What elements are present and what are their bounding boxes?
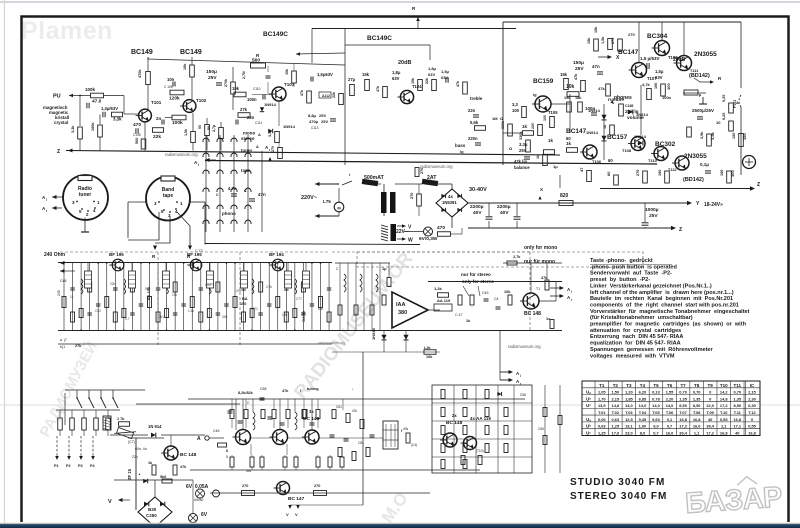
svg-text:nur für mono: nur für mono (524, 259, 555, 265)
svg-text:T7: T7 (680, 383, 686, 388)
svg-text:100: 100 (666, 83, 671, 90)
svg-text:1N914: 1N914 (588, 108, 601, 113)
svg-text:V: V (108, 499, 112, 505)
svg-text:0,70: 0,70 (679, 390, 687, 395)
svg-text:13,9: 13,9 (598, 403, 606, 408)
svg-text:balance: balance (514, 165, 530, 170)
svg-text:2,7k: 2,7k (513, 255, 521, 259)
svg-text:16,8: 16,8 (733, 417, 741, 422)
svg-text:1 7k: 1 7k (117, 417, 125, 421)
svg-text:0,55: 0,55 (720, 417, 728, 422)
svg-text:25V: 25V (208, 75, 217, 81)
svg-text:470: 470 (437, 225, 445, 231)
svg-text:tuner: tuner (79, 192, 92, 198)
svg-text:0,78: 0,78 (652, 396, 660, 401)
svg-text:1,50: 1,50 (612, 390, 620, 395)
svg-text:470k: 470k (138, 69, 142, 78)
svg-text:10n: 10n (167, 77, 175, 82)
svg-text:left channel of the amplifier: left channel of the amplifier is drawn h… (590, 290, 734, 296)
svg-text:16,0: 16,0 (666, 430, 674, 435)
svg-text:Linker Verstärkerkanal gezeic: Linker Verstärkerkanal gezeichnet (Pos.N… (590, 283, 712, 289)
svg-text:6,85: 6,85 (639, 396, 647, 401)
svg-text:Vorverstärker für magnetisch: Vorverstärker für magnetische Tonabnehme… (590, 309, 750, 315)
svg-text:1,35: 1,35 (733, 396, 741, 401)
svg-text:100: 100 (654, 83, 658, 89)
svg-text:PU: PU (53, 94, 61, 100)
svg-text:47k: 47k (180, 465, 187, 469)
svg-text:1,55: 1,55 (666, 390, 674, 395)
svg-text:tape: tape (241, 168, 251, 173)
svg-text:1,5k: 1,5k (601, 36, 605, 44)
svg-text:2n: 2n (156, 116, 162, 121)
svg-text:Entzerrung nach DIN 45 547-: Entzerrung nach DIN 45 547- RIAA (590, 334, 683, 340)
svg-text:BA: BA (242, 297, 248, 301)
svg-text:Taste -phono- gedrückt: Taste -phono- gedrückt (590, 258, 653, 264)
svg-text:27μ: 27μ (348, 77, 356, 82)
svg-text:14,0: 14,0 (652, 403, 660, 408)
svg-text:47k: 47k (598, 86, 605, 91)
svg-text:nur für stereo: nur für stereo (461, 272, 491, 277)
svg-text:T.06: T.06 (666, 410, 674, 415)
svg-text:(BD142): (BD142) (689, 73, 710, 79)
svg-text:4,7k: 4,7k (642, 82, 651, 87)
svg-text:8,50: 8,50 (693, 403, 701, 408)
svg-text:b(1: b(1 (60, 345, 65, 349)
svg-text:15k: 15k (560, 72, 568, 77)
svg-text:BC159: BC159 (533, 78, 554, 85)
svg-text:equalization for DIN 45 547-: equalization for DIN 45 547- RIAA (590, 341, 681, 347)
svg-text:6V: 6V (201, 512, 208, 518)
svg-text:BC 147: BC 147 (288, 496, 305, 502)
svg-text:tape: tape (163, 193, 174, 199)
svg-text:C 47: C 47 (455, 313, 462, 317)
svg-text:27k: 27k (75, 344, 82, 348)
svg-text:2,20: 2,20 (666, 396, 674, 401)
svg-text:BC 148: BC 148 (446, 420, 463, 426)
svg-text:•: • (352, 387, 353, 391)
svg-text:100k: 100k (85, 87, 96, 92)
svg-text:L75: L75 (323, 199, 331, 204)
svg-text:22k: 22k (425, 78, 429, 84)
svg-text:1,35: 1,35 (679, 396, 687, 401)
svg-text:22n: 22n (468, 108, 476, 113)
svg-text:radiomuseum.org: radiomuseum.org (508, 344, 541, 349)
svg-text:T5: T5 (653, 383, 659, 388)
svg-text:treble: treble (470, 96, 483, 101)
svg-text:6V/0,3W: 6V/0,3W (419, 236, 438, 242)
svg-text:220V~: 220V~ (301, 195, 317, 201)
svg-text:T.05: T.05 (652, 410, 660, 415)
svg-text:470: 470 (133, 122, 141, 128)
svg-text:5k6: 5k6 (160, 475, 166, 479)
svg-text:C250: C250 (146, 513, 157, 518)
svg-text:(T10): (T10) (476, 449, 484, 453)
svg-text:2,7N: 2,7N (242, 71, 246, 79)
svg-text:10k: 10k (232, 86, 240, 91)
svg-text:1,1: 1,1 (721, 424, 727, 429)
svg-text:100: 100 (282, 313, 288, 317)
svg-text:Z: Z (757, 182, 760, 188)
svg-text:C49: C49 (482, 291, 488, 295)
svg-text:100: 100 (720, 170, 724, 176)
svg-text:L2k: L2k (424, 346, 431, 350)
svg-text:1,5k: 1,5k (188, 309, 194, 313)
svg-text:0,7: 0,7 (667, 424, 672, 429)
svg-text:T9: T9 (708, 383, 714, 388)
svg-text:60: 60 (606, 171, 611, 176)
svg-text:X: X (540, 187, 543, 192)
svg-text:22k: 22k (332, 92, 336, 98)
svg-text:C81: C81 (336, 405, 342, 409)
svg-text:380: 380 (398, 310, 407, 316)
svg-text:tuning: tuning (307, 387, 319, 391)
svg-text:1N 914: 1N 914 (148, 424, 162, 429)
svg-text:0,06: 0,06 (598, 417, 606, 422)
svg-text:C111: C111 (255, 121, 262, 125)
svg-text:C145: C145 (133, 133, 141, 137)
svg-text:40: 40 (735, 430, 739, 435)
svg-text:T108: T108 (622, 148, 632, 153)
svg-text:39,4: 39,4 (679, 430, 687, 435)
svg-text:1k: 1k (548, 138, 554, 143)
svg-text:15k: 15k (594, 26, 598, 33)
svg-text:T105: T105 (548, 110, 558, 115)
svg-text:0,63: 0,63 (598, 424, 606, 429)
svg-text:1,5μ63V: 1,5μ63V (317, 72, 333, 77)
svg-text:1N914: 1N914 (371, 327, 376, 340)
svg-text:0,55: 0,55 (748, 424, 756, 429)
svg-text:C61: C61 (158, 315, 164, 319)
svg-text:0,25: 0,25 (722, 113, 726, 120)
svg-text:crystal: crystal (54, 120, 68, 125)
svg-text:ig: ig (533, 92, 537, 97)
svg-text:9,60: 9,60 (652, 417, 660, 422)
svg-text:5: 5 (226, 455, 228, 459)
svg-text:OA 90: OA 90 (302, 311, 306, 322)
svg-text:C168: C168 (625, 104, 633, 108)
svg-text:radiomuseum.org: radiomuseum.org (420, 164, 453, 169)
svg-text:25V: 25V (319, 113, 326, 118)
svg-text:T3: T3 (626, 383, 632, 388)
svg-text:Z: Z (679, 227, 682, 233)
svg-text:270: 270 (628, 32, 635, 37)
svg-text:T.10: T.10 (720, 410, 727, 415)
svg-text:6V 0,05A: 6V 0,05A (186, 484, 209, 490)
svg-text:BC 148: BC 148 (303, 416, 320, 422)
svg-text:150μ: 150μ (573, 60, 584, 66)
svg-text:C46: C46 (213, 429, 219, 433)
svg-text:STEREO 3040 FM: STEREO 3040 FM (570, 491, 667, 502)
svg-text:lg: lg (460, 149, 464, 154)
svg-text:3,3k: 3,3k (268, 130, 272, 137)
svg-text:BC 148: BC 148 (180, 452, 197, 458)
svg-text:10k: 10k (426, 355, 433, 359)
svg-text:BC149: BC149 (180, 49, 202, 56)
svg-text:22k: 22k (110, 282, 116, 286)
svg-text:17,2: 17,2 (679, 424, 687, 429)
svg-text:1μ: 1μ (553, 164, 558, 169)
svg-text:150μ: 150μ (206, 69, 217, 75)
svg-text:270k: 270k (224, 79, 228, 87)
svg-text:BA 150: BA 150 (147, 287, 151, 300)
svg-text:10k: 10k (172, 293, 178, 297)
svg-text:1,70: 1,70 (598, 396, 606, 401)
svg-text:1,35: 1,35 (693, 396, 701, 401)
svg-text:100k: 100k (172, 120, 183, 126)
svg-text:BC149C: BC149C (367, 35, 392, 42)
svg-text:1μ: 1μ (382, 267, 387, 271)
svg-text:1,5k: 1,5k (184, 129, 188, 136)
svg-text:phones: phones (614, 95, 632, 101)
svg-text:1k: 1k (70, 295, 74, 299)
svg-text:T.09: T.09 (706, 410, 714, 415)
svg-text:17,1: 17,1 (733, 424, 741, 429)
svg-text:T.07: T.07 (679, 410, 686, 415)
svg-text:0,25: 0,25 (722, 95, 726, 102)
svg-text:T1: T1 (536, 287, 540, 291)
svg-text:P2: P2 (66, 464, 71, 468)
svg-text:3,3: 3,3 (512, 102, 518, 107)
svg-text:470μ: 470μ (309, 119, 319, 124)
svg-text:BC147: BC147 (566, 128, 587, 135)
svg-text:2,7μ: 2,7μ (212, 125, 216, 132)
svg-text:C113: C113 (311, 126, 319, 130)
svg-text:100n: 100n (247, 97, 257, 102)
svg-text:0,7: 0,7 (653, 430, 658, 435)
svg-text:attenuation for crystal car: attenuation for crystal cartridges (590, 328, 681, 334)
svg-text:100k: 100k (91, 122, 95, 131)
svg-text:47k: 47k (300, 90, 304, 96)
svg-text:10: 10 (716, 120, 721, 125)
svg-text:6: 6 (226, 449, 228, 453)
svg-text:1,8μ: 1,8μ (392, 70, 401, 75)
svg-text:1,25: 1,25 (612, 424, 620, 429)
svg-text:T.03: T.03 (625, 410, 633, 415)
svg-text:2,2k: 2,2k (266, 285, 272, 289)
svg-text:C48: C48 (60, 279, 66, 283)
svg-text:P3: P3 (78, 464, 83, 468)
svg-text:0,35: 0,35 (639, 417, 647, 422)
svg-text:1,5μ: 1,5μ (441, 69, 450, 74)
svg-text:Z: Z (57, 149, 60, 155)
svg-text:16,8: 16,8 (679, 417, 687, 422)
svg-text:BC149C: BC149C (263, 31, 288, 38)
svg-text:19k: 19k (411, 78, 415, 84)
svg-text:T1: T1 (599, 383, 605, 388)
svg-text:20dB: 20dB (398, 60, 411, 66)
svg-text:BC147: BC147 (618, 49, 639, 56)
svg-text:18-24V»: 18-24V» (704, 202, 723, 208)
svg-text:14,0: 14,0 (625, 403, 633, 408)
svg-text:16,8: 16,8 (720, 430, 728, 435)
svg-text:T2: T2 (613, 383, 619, 388)
svg-text:50: 50 (198, 125, 202, 129)
svg-text:14,8: 14,8 (720, 396, 728, 401)
svg-text:C4: C4 (494, 297, 499, 301)
svg-text:ZF 15: ZF 15 (127, 468, 132, 480)
svg-text:22n: 22n (247, 115, 255, 120)
svg-text:39,4: 39,4 (706, 424, 714, 429)
svg-text:15k: 15k (587, 37, 591, 44)
svg-text:0: 0 (751, 417, 753, 422)
svg-text:BC304: BC304 (647, 33, 668, 40)
svg-text:22k: 22k (153, 134, 161, 140)
svg-text:270: 270 (636, 170, 640, 176)
svg-text:23,0: 23,0 (625, 430, 633, 435)
svg-text:330k: 330k (519, 131, 523, 140)
svg-text:0: 0 (709, 396, 711, 401)
svg-text:C56: C56 (538, 427, 544, 431)
svg-text:1,20: 1,20 (625, 390, 633, 395)
svg-text:1,3μ/63V: 1,3μ/63V (101, 106, 118, 111)
svg-text:1N914: 1N914 (264, 102, 277, 107)
svg-text:Uₐ: Uₐ (586, 417, 591, 422)
svg-text:Uᶜ: Uᶜ (586, 403, 591, 408)
svg-text:240 Ohm: 240 Ohm (44, 252, 66, 258)
svg-text:stereo: stereo (241, 136, 255, 141)
svg-text:25V: 25V (321, 119, 328, 124)
svg-text:1,5μ: 1,5μ (655, 69, 664, 74)
svg-text:2200μ: 2200μ (470, 204, 484, 210)
svg-text:40V: 40V (473, 210, 482, 216)
svg-text:0: 0 (709, 390, 711, 395)
svg-text:270: 270 (242, 484, 248, 488)
svg-text:9,0: 9,0 (653, 424, 658, 429)
svg-text:1,1: 1,1 (694, 430, 700, 435)
svg-text:50: 50 (207, 126, 211, 130)
svg-text:C58: C58 (520, 393, 526, 397)
svg-text:l: l (198, 163, 199, 167)
svg-text:AA 119: AA 119 (437, 298, 451, 303)
svg-text:47k: 47k (456, 81, 460, 87)
svg-text:C 106: C 106 (164, 85, 173, 89)
svg-text:0,1μ: 0,1μ (700, 162, 709, 167)
svg-text:560: 560 (135, 138, 139, 144)
svg-text:8,8μ: 8,8μ (308, 113, 317, 118)
svg-text:1N914: 1N914 (586, 130, 599, 135)
svg-text:Plamen: Plamen (21, 17, 113, 45)
svg-text:8,50: 8,50 (679, 403, 687, 408)
svg-text:radiomuseum.org: radiomuseum.org (165, 152, 198, 157)
svg-text:Uₐ: Uₐ (586, 390, 591, 395)
svg-text:40s: 40s (403, 427, 409, 431)
svg-text:4.7n: 4.7n (228, 186, 237, 191)
svg-text:T10: T10 (720, 383, 728, 388)
svg-text:Uᵇ: Uᵇ (586, 424, 591, 429)
svg-text:mono: mono (243, 131, 255, 136)
svg-text:25V: 25V (575, 66, 584, 72)
svg-text:bass: bass (455, 143, 466, 148)
svg-text:T.01: T.01 (598, 410, 606, 415)
svg-text:T8: T8 (694, 383, 700, 388)
svg-text:1,05: 1,05 (598, 390, 606, 395)
svg-text:15k: 15k (362, 72, 370, 77)
svg-text:1N914: 1N914 (283, 124, 296, 129)
svg-text:Sendervorwahl auf Taste -P2: Sendervorwahl auf Taste -P2- (590, 271, 672, 277)
svg-text:a (7: a (7 (60, 338, 67, 342)
svg-text:330k: 330k (501, 121, 505, 129)
svg-text:100: 100 (730, 170, 735, 177)
svg-text:40V: 40V (500, 210, 509, 216)
svg-text:100: 100 (543, 115, 547, 121)
svg-text:T4: T4 (640, 383, 646, 388)
svg-text:C52: C52 (95, 309, 101, 313)
svg-text:60n, 4n: 60n, 4n (135, 447, 147, 451)
svg-text:P153: P153 (733, 100, 737, 108)
svg-text:T6: T6 (667, 383, 673, 388)
svg-text:1N914: 1N914 (636, 112, 649, 117)
svg-text:T.08: T.08 (693, 410, 701, 415)
svg-text:W: W (408, 238, 413, 244)
svg-text:120k: 120k (169, 96, 180, 102)
svg-text:8,2k/82k: 8,2k/82k (238, 391, 254, 395)
svg-text:1k: 1k (522, 124, 528, 129)
svg-text:3,3k: 3,3k (71, 125, 75, 133)
svg-text:BC157: BC157 (607, 134, 628, 141)
svg-text:1N5391: 1N5391 (442, 200, 457, 205)
svg-text:1,85: 1,85 (625, 396, 633, 401)
svg-text:only for stereo: only for stereo (462, 279, 494, 284)
svg-text:0,70: 0,70 (733, 390, 741, 395)
svg-text:270: 270 (410, 193, 414, 199)
svg-text:13,1: 13,1 (625, 424, 633, 429)
svg-text:1,2k: 1,2k (434, 286, 443, 291)
svg-text:330: 330 (222, 315, 228, 319)
svg-text:220n: 220n (468, 136, 478, 141)
svg-text:8,0: 8,0 (640, 430, 645, 435)
svg-text:47k: 47k (282, 389, 289, 393)
svg-text:1,5 μ/63V: 1,5 μ/63V (640, 56, 660, 61)
svg-text:40: 40 (708, 417, 712, 422)
svg-text:C71: C71 (252, 307, 258, 311)
svg-text:8,50: 8,50 (733, 403, 741, 408)
svg-text:4x AA 119: 4x AA 119 (470, 416, 491, 421)
svg-text:2,15: 2,15 (748, 390, 756, 395)
svg-text:P1: P1 (54, 464, 59, 468)
svg-text:U5960: U5960 (194, 498, 204, 502)
svg-text:4x: 4x (448, 194, 454, 199)
svg-text:T107: T107 (647, 76, 657, 81)
svg-text:100: 100 (512, 108, 520, 113)
svg-text:preset by button -P2-: preset by button -P2- (590, 277, 650, 283)
svg-text:22V∼: 22V∼ (396, 229, 409, 235)
svg-text:47n: 47n (592, 64, 600, 69)
svg-text:A112: A112 (322, 94, 330, 98)
svg-text:1,00: 1,00 (639, 424, 647, 429)
svg-text:(BD142): (BD142) (683, 177, 704, 183)
svg-text:47k: 47k (352, 409, 358, 413)
svg-text:15k: 15k (285, 69, 289, 75)
svg-text:(C7): (C7) (128, 440, 135, 444)
svg-text:1,8μ: 1,8μ (428, 66, 437, 71)
svg-text:1k: 1k (566, 141, 572, 146)
svg-text:150: 150 (742, 133, 747, 140)
svg-text:47k: 47k (376, 86, 380, 92)
svg-text:Bauteile im rechten Kanal: Bauteile im rechten Kanal beginnen mit P… (590, 296, 733, 302)
svg-text:3,3μ: 3,3μ (519, 142, 528, 147)
svg-text:2500μ/25V: 2500μ/25V (692, 108, 714, 113)
svg-text:63V: 63V (392, 76, 400, 81)
svg-text:22,0: 22,0 (706, 403, 714, 408)
svg-text:220: 220 (531, 123, 535, 129)
svg-text:A: A (197, 436, 201, 442)
svg-text:T110: T110 (648, 158, 658, 163)
svg-text:-phono- push button is operat: -phono- push button is operated (590, 264, 678, 270)
svg-text:BC 148: BC 148 (524, 311, 541, 317)
svg-text:2,15: 2,15 (612, 396, 620, 401)
svg-text:БАЗАР: БАЗАР (684, 481, 783, 520)
svg-text:Uᶜ: Uᶜ (586, 430, 591, 435)
